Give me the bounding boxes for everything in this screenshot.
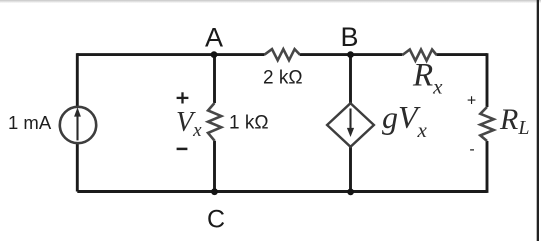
- resistor RL (vertical): [480, 107, 493, 141]
- svg-text:C: C: [207, 205, 225, 233]
- wire node A vertical above 1k: [213, 55, 216, 103]
- wire node B vertical below dependent source: [349, 146, 352, 192]
- current source I1 circle: [60, 107, 96, 143]
- wire node A vertical below 1k: [213, 141, 216, 192]
- wire right vertical above RL: [486, 53, 489, 107]
- resistor Rx (horizontal): [402, 50, 436, 61]
- wire top: left corner to 2k resistor: [77, 53, 265, 56]
- svg-text:1 mA: 1 mA: [8, 112, 52, 133]
- svg-text:2 kΩ: 2 kΩ: [263, 68, 303, 89]
- wire top: 2k resistor to Rx resistor: [300, 53, 403, 56]
- dependent current source gVx diamond: [327, 103, 374, 147]
- svg-text:A: A: [205, 23, 223, 53]
- top page border line: [0, 0, 541, 3]
- right page border line: [537, 0, 539, 241]
- node C junction dot: [211, 188, 218, 195]
- Vx plus sign: [177, 92, 189, 103]
- resistor 1k (vertical): [208, 103, 221, 141]
- node A junction dot: [211, 51, 218, 58]
- wire left vertical above current source: [76, 53, 79, 107]
- junction dot below dependent source: [347, 189, 354, 196]
- wire node B vertical above dependent source: [349, 55, 352, 104]
- node B junction dot: [347, 51, 354, 58]
- current source I1 arrow: [74, 107, 81, 140]
- wire right vertical below RL: [486, 141, 489, 193]
- wire left vertical below current source: [76, 143, 79, 191]
- svg-text:+: +: [467, 93, 476, 110]
- svg-text:-: -: [469, 141, 474, 158]
- Vx minus sign: [177, 148, 188, 151]
- svg-text:B: B: [340, 22, 358, 52]
- resistor 2k (horizontal): [265, 49, 300, 60]
- svg-text:1 kΩ: 1 kΩ: [229, 113, 269, 134]
- dependent source arrow: [347, 109, 354, 138]
- wire top: Rx resistor to right corner: [436, 53, 487, 56]
- wire bottom: [77, 190, 487, 193]
